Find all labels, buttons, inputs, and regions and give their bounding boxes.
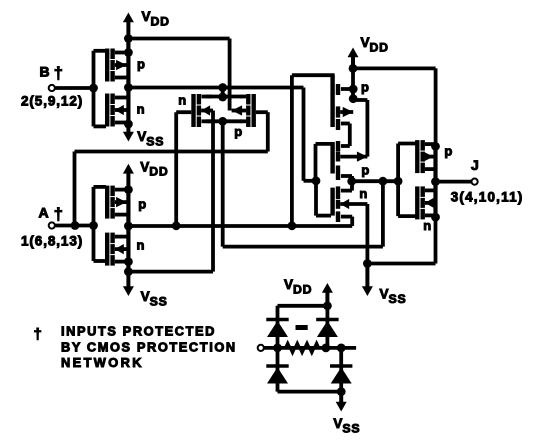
svg-text:V: V xyxy=(333,416,342,431)
svg-text:V: V xyxy=(284,277,293,292)
svg-text:SS: SS xyxy=(150,294,168,308)
svg-text:†: † xyxy=(54,206,63,224)
svg-text:3(4,10,11): 3(4,10,11) xyxy=(451,190,524,205)
svg-text:V: V xyxy=(141,289,150,304)
svg-text:SS: SS xyxy=(389,292,407,306)
svg-text:p: p xyxy=(138,197,146,212)
svg-text:p: p xyxy=(361,162,369,177)
svg-text:NETWORK: NETWORK xyxy=(61,355,144,370)
svg-text:B: B xyxy=(40,64,50,80)
svg-text:BY CMOS PROTECTION: BY CMOS PROTECTION xyxy=(61,339,237,354)
svg-text:†: † xyxy=(34,326,42,343)
svg-text:J: J xyxy=(471,157,479,173)
svg-text:n: n xyxy=(423,218,431,233)
svg-text:A: A xyxy=(39,205,49,221)
svg-text:DD: DD xyxy=(370,40,389,54)
svg-text:DD: DD xyxy=(293,282,312,296)
svg-text:INPUTS PROTECTED: INPUTS PROTECTED xyxy=(61,324,216,339)
svg-text:SS: SS xyxy=(342,421,360,435)
svg-text:V: V xyxy=(142,9,151,24)
svg-text:V: V xyxy=(380,287,389,302)
svg-text:1(6,8,13): 1(6,8,13) xyxy=(21,233,83,248)
svg-text:V: V xyxy=(137,129,146,144)
svg-text:p: p xyxy=(234,124,242,139)
svg-text:2(5,9,12): 2(5,9,12) xyxy=(21,93,83,108)
svg-text:†: † xyxy=(54,65,63,83)
svg-text:p: p xyxy=(137,57,145,72)
svg-text:DD: DD xyxy=(151,14,170,28)
svg-text:SS: SS xyxy=(146,134,164,148)
svg-text:n: n xyxy=(137,102,145,117)
svg-text:V: V xyxy=(140,159,149,174)
svg-text:n: n xyxy=(178,93,186,108)
svg-text:n: n xyxy=(359,186,367,201)
svg-text:DD: DD xyxy=(149,165,168,179)
svg-text:V: V xyxy=(361,35,370,50)
svg-text:p: p xyxy=(361,80,369,95)
svg-text:n: n xyxy=(137,238,145,253)
svg-text:p: p xyxy=(444,143,452,158)
